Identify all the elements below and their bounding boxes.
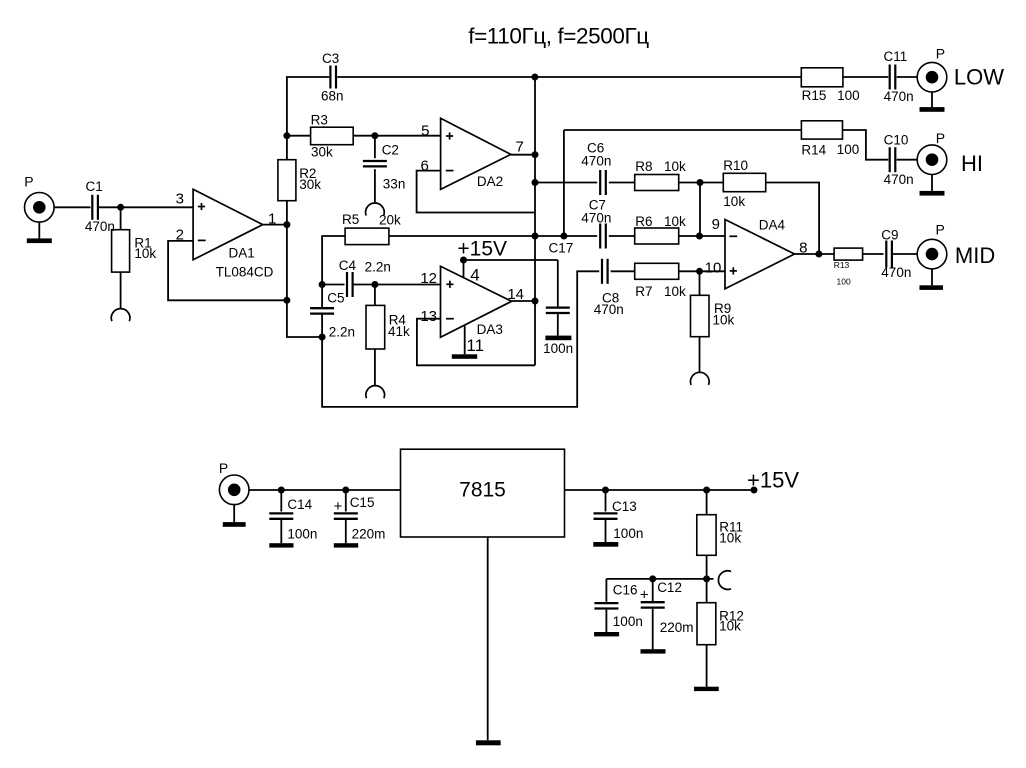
svg-text:41k: 41k: [388, 324, 410, 339]
svg-text:LOW: LOW: [954, 64, 1004, 89]
svg-text:100n: 100n: [287, 527, 317, 542]
svg-text:C17: C17: [549, 240, 574, 255]
svg-text:C15: C15: [350, 495, 375, 510]
svg-text:C5: C5: [327, 290, 344, 305]
svg-text:20k: 20k: [379, 213, 401, 228]
svg-text:13: 13: [420, 308, 437, 325]
svg-text:R13: R13: [834, 260, 850, 270]
svg-text:10k: 10k: [664, 214, 686, 229]
svg-text:470n: 470n: [884, 89, 914, 104]
svg-text:R15: R15: [802, 88, 827, 103]
svg-text:DA4: DA4: [759, 218, 786, 233]
svg-text:C12: C12: [657, 580, 682, 595]
svg-text:+: +: [640, 587, 649, 604]
svg-text:+15V: +15V: [747, 468, 799, 493]
svg-text:C2: C2: [382, 142, 399, 157]
svg-text:68n: 68n: [321, 89, 344, 104]
svg-text:10k: 10k: [134, 246, 156, 261]
svg-text:1: 1: [268, 210, 276, 227]
svg-text:R14: R14: [801, 143, 826, 158]
svg-text:TL084CD: TL084CD: [216, 265, 274, 280]
svg-text:100: 100: [837, 142, 860, 157]
svg-text:100: 100: [837, 88, 860, 103]
svg-text:DA3: DA3: [477, 322, 503, 337]
svg-text:6: 6: [420, 157, 428, 174]
svg-text:MID: MID: [955, 243, 995, 268]
svg-text:10: 10: [705, 260, 722, 277]
svg-text:R3: R3: [311, 112, 328, 127]
svg-text:C13: C13: [612, 499, 637, 514]
svg-text:30k: 30k: [299, 177, 321, 192]
svg-text:P: P: [936, 45, 945, 61]
svg-text:R8: R8: [635, 159, 652, 174]
svg-text:+15V: +15V: [457, 237, 507, 260]
svg-text:470n: 470n: [881, 265, 911, 280]
svg-text:R10: R10: [723, 158, 748, 173]
svg-text:DA1: DA1: [229, 245, 255, 260]
svg-text:C16: C16: [613, 583, 638, 598]
svg-text:C4: C4: [339, 258, 357, 273]
svg-text:DA2: DA2: [477, 174, 503, 189]
svg-text:4: 4: [470, 266, 479, 285]
svg-text:R7: R7: [635, 284, 652, 299]
svg-text:C11: C11: [884, 49, 908, 64]
svg-text:8: 8: [799, 240, 807, 257]
svg-text:10k: 10k: [664, 159, 686, 174]
svg-text:470n: 470n: [581, 210, 611, 225]
svg-text:100: 100: [837, 276, 851, 286]
svg-text:100n: 100n: [613, 614, 643, 629]
svg-text:10k: 10k: [719, 530, 741, 545]
svg-text:10k: 10k: [723, 194, 745, 209]
svg-text:9: 9: [712, 216, 720, 233]
svg-text:100n: 100n: [543, 341, 573, 356]
svg-text:12: 12: [420, 270, 437, 287]
svg-text:f=110Гц, f=2500Гц: f=110Гц, f=2500Гц: [468, 24, 649, 49]
svg-text:P: P: [219, 460, 228, 476]
svg-text:2.2n: 2.2n: [329, 325, 355, 340]
svg-text:R6: R6: [635, 214, 652, 229]
svg-text:470n: 470n: [581, 154, 611, 169]
svg-text:11: 11: [466, 336, 484, 355]
svg-text:220m: 220m: [352, 527, 386, 542]
svg-text:P: P: [936, 222, 945, 238]
svg-text:10k: 10k: [664, 284, 686, 299]
svg-text:HI: HI: [961, 151, 983, 176]
svg-text:3: 3: [176, 191, 184, 208]
svg-text:100n: 100n: [613, 526, 643, 541]
svg-text:C10: C10: [884, 132, 909, 147]
svg-text:5: 5: [421, 122, 429, 139]
svg-text:R5: R5: [342, 212, 359, 227]
svg-text:470n: 470n: [85, 219, 115, 234]
svg-text:7: 7: [515, 139, 523, 156]
svg-text:C9: C9: [881, 227, 898, 242]
svg-text:33n: 33n: [383, 177, 406, 192]
svg-text:30k: 30k: [311, 145, 333, 160]
svg-text:C14: C14: [287, 497, 312, 512]
svg-text:7815: 7815: [459, 479, 506, 502]
svg-text:P: P: [936, 130, 945, 146]
svg-text:10k: 10k: [719, 619, 741, 634]
svg-text:P: P: [24, 174, 33, 190]
svg-text:C1: C1: [86, 179, 103, 194]
svg-text:C3: C3: [322, 51, 339, 66]
svg-text:470n: 470n: [594, 302, 624, 317]
svg-text:14: 14: [507, 286, 524, 303]
svg-text:470n: 470n: [884, 172, 914, 187]
svg-text:10k: 10k: [713, 313, 735, 328]
svg-text:2: 2: [176, 226, 184, 243]
svg-text:+: +: [334, 498, 343, 515]
svg-text:2.2n: 2.2n: [365, 260, 391, 275]
svg-text:220m: 220m: [660, 620, 694, 635]
